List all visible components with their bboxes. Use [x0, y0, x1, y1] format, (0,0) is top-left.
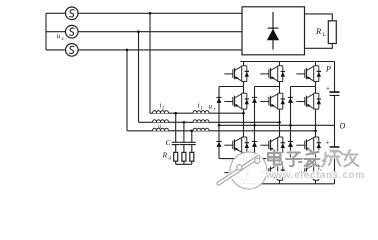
- svg-text:R: R: [315, 26, 322, 36]
- svg-text:r: r: [214, 108, 216, 113]
- svg-text:C: C: [166, 138, 172, 147]
- svg-text:O: O: [340, 122, 346, 131]
- svg-text:R: R: [162, 151, 168, 160]
- svg-text:P: P: [325, 65, 331, 74]
- svg-text:d: d: [169, 157, 172, 162]
- svg-text:u: u: [57, 31, 61, 40]
- svg-text:u: u: [158, 124, 161, 130]
- svg-text:s: s: [62, 36, 64, 42]
- svg-text:L: L: [323, 32, 327, 38]
- svg-text:+: +: [326, 85, 330, 93]
- svg-text:u: u: [209, 103, 213, 111]
- svg-text:+: +: [326, 139, 330, 147]
- svg-text:www.elecfans.com: www.elecfans.com: [265, 170, 365, 181]
- svg-text:2: 2: [162, 107, 165, 112]
